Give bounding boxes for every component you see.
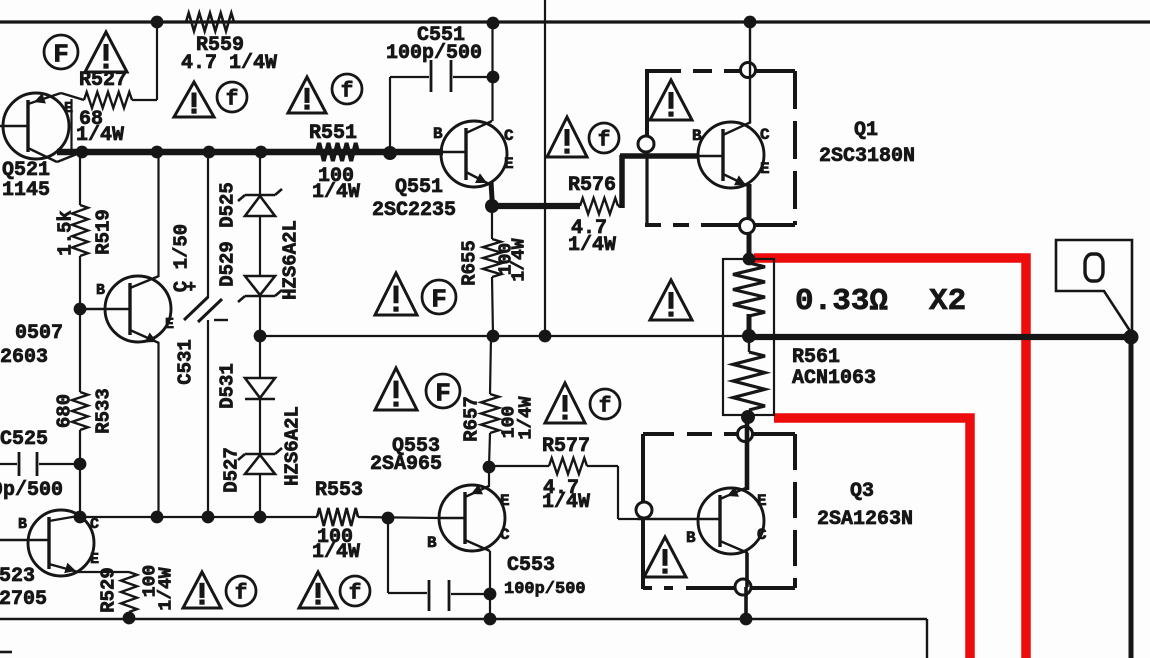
- circled F lower: [426, 374, 460, 408]
- label D527 rotated: [221, 447, 243, 493]
- svg-text:R561: R561: [792, 346, 840, 369]
- connector circle Q3 base: [636, 502, 652, 518]
- label R576: [568, 174, 616, 197]
- label Q1 E: [760, 160, 770, 178]
- circled f near R551: [332, 74, 362, 104]
- wire Q551 collector up: [491, 23, 493, 121]
- wire R561 mid bold: [747, 314, 752, 336]
- label R561 type ACN1063: [792, 367, 876, 390]
- label 0.33 X2: [795, 284, 966, 319]
- junction dot R561 bottom: [741, 410, 755, 424]
- dashed box Q1 top: [645, 69, 795, 73]
- svg-text:680: 680: [54, 394, 76, 428]
- circled f mid-top near R527: [217, 82, 247, 112]
- junction dot mid rail x545: [539, 330, 552, 343]
- junction dot C553 right: [484, 588, 497, 601]
- resistor R553: [317, 508, 358, 526]
- svg-text:1.5k: 1.5k: [55, 210, 77, 256]
- label Q507: [15, 322, 63, 345]
- svg-text:HZS6A2L: HZS6A2L: [280, 220, 302, 300]
- svg-text:C525: C525: [0, 428, 48, 451]
- svg-text:1/4W: 1/4W: [510, 238, 530, 281]
- warning triangle near R576: [547, 117, 587, 157]
- svg-text:R527: R527: [79, 69, 127, 92]
- label R529 1/4W rotated: [157, 567, 177, 610]
- circled f bottom 1: [226, 576, 256, 606]
- junction dot mid rail output: [1124, 330, 1139, 345]
- svg-text:R657: R657: [461, 396, 483, 442]
- wire R561 mid to lower: [748, 341, 750, 352]
- wire R655 bottom: [492, 277, 493, 336]
- circled F mid: [422, 280, 456, 314]
- callout letter 0: [1085, 254, 1103, 281]
- wire Q553 collector down: [489, 551, 491, 594]
- label R576 value: [568, 217, 616, 257]
- resistor R655: [483, 239, 501, 277]
- label HZS6A2L lower rotated: [282, 406, 304, 486]
- svg-text:C: C: [757, 526, 767, 544]
- red highlight line 1: [754, 258, 1026, 658]
- junction dot top rail / Q1 collector: [744, 16, 757, 29]
- wire R657 node to Q553 emitter: [488, 467, 490, 487]
- label R655 rotated: [459, 240, 481, 286]
- svg-text:f: f: [598, 130, 611, 153]
- junction dot top rail / C551-Q551 collector: [487, 17, 500, 30]
- label R529 100 rotated: [141, 565, 161, 597]
- warning triangle lower F: [375, 368, 417, 410]
- resistor R551: [317, 143, 358, 161]
- svg-text:C: C: [760, 126, 770, 144]
- capacitor C553: [429, 580, 484, 611]
- connector circle Q1 base: [638, 136, 654, 152]
- wire Q507 collector up to bus: [157, 152, 159, 277]
- label D529 rotated: [217, 241, 239, 287]
- label R577: [542, 435, 590, 458]
- svg-text:4.7 1/4W: 4.7 1/4W: [181, 52, 277, 75]
- svg-text:1/4W: 1/4W: [157, 567, 177, 610]
- wire mid rail to D531: [259, 336, 261, 377]
- label R559 value: [181, 34, 277, 75]
- label C525: [0, 428, 48, 451]
- label C551: [417, 24, 465, 47]
- warning triangle top-left: [85, 32, 127, 72]
- wire mid rail bold: [749, 334, 1131, 340]
- wire x545 column: [544, 0, 546, 336]
- transistor Q553 2SA965: [439, 485, 505, 552]
- svg-text:f: f: [226, 89, 239, 112]
- resistor R657: [481, 394, 499, 433]
- label R561: [792, 346, 840, 369]
- label R551: [309, 122, 357, 145]
- label R529 rotated: [98, 567, 120, 613]
- svg-text:R577: R577: [542, 435, 590, 458]
- svg-text:0507: 0507: [15, 322, 63, 345]
- connector circle Q1 collector: [741, 63, 756, 78]
- svg-text:R576: R576: [568, 174, 616, 197]
- wire R577 to Q3 base elbow: [587, 466, 637, 519]
- resistor R529: [121, 572, 137, 612]
- label D525 rotated: [217, 182, 239, 228]
- label R527: [79, 69, 127, 92]
- wire left column upper: [79, 152, 81, 205]
- junction dot mid rail R655: [487, 330, 500, 343]
- svg-text:2603: 2603: [0, 346, 48, 369]
- wire bottom rail: [0, 619, 927, 658]
- label Q3 E: [757, 492, 767, 510]
- label Q507 B: [96, 282, 105, 299]
- dashed box Q3 bottom: [643, 586, 795, 590]
- wire C553 branch: [388, 518, 427, 593]
- capacitor C531 polarized: [184, 297, 228, 322]
- junction dot diode column mid rail: [254, 330, 267, 343]
- warning triangle bottom 1: [183, 572, 221, 608]
- transistor Q1 2SC3180N: [698, 122, 764, 188]
- junction dot rail x157: [151, 511, 164, 524]
- svg-text:ACN1063: ACN1063: [792, 367, 876, 390]
- transistor Q551 2SC2235: [441, 121, 507, 187]
- warning triangle near R577: [545, 383, 585, 423]
- capacitor C551: [390, 60, 489, 92]
- wire base node down to R533: [79, 309, 81, 392]
- label R527 value 68 1/4W: [76, 108, 124, 147]
- wire C531 column lower: [207, 320, 209, 517]
- dashed box Q3 right: [793, 434, 797, 588]
- label Q1 C: [760, 126, 770, 144]
- wire C551 left elbow down: [389, 77, 391, 150]
- transistor Q521 2SA1145: [0, 93, 84, 162]
- label Q521: [2, 159, 50, 182]
- svg-text:+: +: [186, 279, 196, 298]
- resistor R519: [72, 205, 88, 256]
- svg-text:D529: D529: [217, 241, 239, 287]
- label R657 rotated: [461, 396, 483, 442]
- junction dot top rail / R527 branch: [151, 16, 164, 29]
- warning triangle in Q1 box: [650, 80, 692, 120]
- label Q523 type: [0, 588, 47, 611]
- wire bottom left stub: [0, 651, 12, 654]
- junction dot bottom rail Q3: [740, 613, 753, 626]
- wire Q1 emitter bold: [747, 184, 752, 259]
- label C531 plus: [186, 279, 196, 298]
- red highlight line 2: [774, 418, 970, 658]
- svg-text:1/4W: 1/4W: [312, 541, 360, 564]
- svg-text:C: C: [90, 516, 99, 533]
- wire diode column from bus: [259, 152, 261, 195]
- label C531 value rotated: [171, 224, 193, 292]
- label R519 value 1.5k: [55, 210, 77, 256]
- svg-text:f: f: [599, 396, 612, 419]
- svg-text:Q1: Q1: [854, 119, 878, 142]
- svg-text:1/4W: 1/4W: [312, 181, 360, 204]
- label C551 value: [386, 42, 482, 65]
- wire D527 to lower rail: [259, 474, 261, 517]
- junction dot bottom rail C553: [484, 613, 497, 626]
- label R533: [93, 388, 115, 434]
- svg-text:C531: C531: [175, 339, 197, 385]
- junction dot bus/C551 branch: [383, 146, 397, 160]
- label Q553 type: [370, 453, 442, 476]
- svg-text:R533: R533: [93, 388, 115, 434]
- svg-text:C: C: [500, 526, 510, 544]
- wire bold output drop: [1129, 337, 1134, 658]
- wire R576 right elbow bold: [618, 155, 699, 208]
- junction dot bus/diode column: [255, 146, 268, 159]
- label C531: [175, 339, 197, 385]
- dashed box Q3 left: [641, 434, 645, 589]
- svg-text:1/4W: 1/4W: [568, 234, 616, 257]
- svg-text:2SA965: 2SA965: [370, 453, 442, 476]
- svg-text:X2: X2: [929, 284, 966, 319]
- label HZS6A2L upper rotated: [280, 220, 302, 300]
- wire R527 right to x157 column: [132, 22, 157, 100]
- box around R561: [723, 259, 774, 415]
- junction dot rail x80: [74, 511, 87, 524]
- svg-text:B: B: [18, 516, 27, 533]
- junction dot bus/Q521 collector: [76, 146, 89, 159]
- dashed box Q3 top: [643, 432, 795, 436]
- junction dot C551 right: [487, 71, 500, 84]
- label Q551 C: [504, 127, 514, 145]
- callout flag O: [1056, 240, 1132, 334]
- label Q551 B: [433, 125, 443, 143]
- label C553 value: [504, 580, 586, 599]
- wire R519 to Q507 base node: [79, 256, 81, 309]
- zener diode D527: [238, 448, 282, 474]
- junction dot rail x260: [254, 511, 267, 524]
- connector circle Q1 emitter: [740, 219, 755, 234]
- label R657 100 rotated: [500, 406, 520, 438]
- wire Q3 emitter bold: [745, 418, 750, 490]
- label Q551 E: [504, 155, 514, 173]
- wire Q3 collector down: [746, 553, 747, 619]
- dashed box Q1 bottom: [645, 223, 795, 227]
- label Q523: [0, 565, 35, 588]
- wire R553 to Q553 base: [358, 517, 440, 518]
- label D531 rotated: [217, 363, 239, 409]
- svg-text:B: B: [692, 127, 702, 145]
- label Q3 type: [817, 508, 913, 531]
- resistor R561 lower half: [733, 352, 765, 410]
- svg-text:E: E: [165, 316, 174, 333]
- label Q1 type: [819, 145, 915, 168]
- label R553: [315, 479, 363, 502]
- svg-text:E: E: [500, 492, 510, 510]
- resistor R559: [186, 13, 234, 31]
- svg-text:f: f: [349, 583, 362, 606]
- svg-text:F: F: [435, 378, 451, 408]
- circled f near R576: [589, 123, 619, 153]
- zener diode D525: [238, 189, 282, 216]
- transistor Q3 2SA1263N: [637, 487, 764, 554]
- svg-text:E: E: [504, 155, 514, 173]
- transistor Q507 2SC2603: [80, 276, 171, 343]
- svg-text:D527: D527: [221, 447, 243, 493]
- label Q3: [850, 480, 874, 503]
- svg-text:f: f: [341, 81, 354, 104]
- label R655 100 rotated: [497, 243, 517, 275]
- warning triangle mid-top near R527: [174, 82, 214, 117]
- label R551 value: [312, 165, 360, 204]
- label Q551 type: [372, 199, 456, 222]
- wire top supply rail: [0, 20, 1150, 23]
- label Q523 B: [18, 516, 27, 533]
- label R655 1/4W rotated: [510, 238, 530, 281]
- label R657 1/4W rotated: [517, 396, 537, 439]
- wire Q507 emitter down: [157, 342, 159, 517]
- wire D531 to D527: [259, 399, 261, 453]
- resistor R533: [72, 392, 88, 430]
- wire R655 top: [491, 207, 493, 239]
- capacitor C525: [0, 452, 74, 476]
- label Q507 type 2603: [0, 346, 48, 369]
- svg-text:E: E: [757, 492, 767, 510]
- junction dot R657/R577: [483, 461, 496, 474]
- label Q553 E: [500, 492, 510, 510]
- wire C531 column upper: [207, 152, 209, 298]
- wire Q551 emitter bold: [490, 182, 580, 207]
- zener diode D529: [238, 276, 282, 302]
- connector circle Q3 emitter: [738, 427, 753, 442]
- wire R657 top: [490, 336, 491, 394]
- label Q523 C: [90, 516, 99, 533]
- warning triangle in Q3 box: [644, 537, 686, 577]
- svg-text:R519: R519: [93, 209, 115, 255]
- label Q553: [392, 435, 440, 458]
- svg-text:C553: C553: [507, 554, 555, 577]
- svg-text:1/4W: 1/4W: [542, 491, 590, 514]
- svg-text:Q551: Q551: [395, 176, 443, 199]
- label Q553 C: [500, 526, 510, 544]
- svg-text:1145: 1145: [2, 179, 50, 202]
- junction dot C525 node: [74, 458, 87, 471]
- junction dot bus/C531 column: [203, 146, 216, 159]
- junction dot R561 top: [743, 253, 756, 266]
- junction dot Q507 base: [74, 303, 87, 316]
- circled f near R577: [590, 389, 620, 419]
- svg-text:f: f: [235, 583, 248, 606]
- transistor Q523 2SC2705: [0, 510, 94, 576]
- svg-text:0.33Ω: 0.33Ω: [795, 284, 888, 319]
- wire R533 to C525 node: [79, 430, 81, 464]
- svg-text:R551: R551: [309, 122, 357, 145]
- warning triangle mid F: [375, 273, 417, 315]
- svg-text:2SC2235: 2SC2235: [372, 199, 456, 222]
- resistor R527: [84, 92, 132, 108]
- svg-text:B: B: [96, 282, 105, 299]
- svg-text:R655: R655: [459, 240, 481, 286]
- label R553 value: [312, 526, 360, 564]
- diode D531: [245, 378, 275, 399]
- wire Q521 emitter to bus: [70, 99, 72, 150]
- svg-text:Q523: Q523: [0, 565, 35, 588]
- label Q3 C: [757, 526, 767, 544]
- svg-text:1/4W: 1/4W: [517, 396, 537, 439]
- svg-text:E: E: [760, 160, 770, 178]
- svg-text:F: F: [53, 39, 69, 69]
- label R577 value: [542, 477, 590, 514]
- wire D529 to mid rail: [259, 296, 261, 336]
- junction dot bus/x157 column: [151, 146, 164, 159]
- svg-text:C: C: [504, 127, 514, 145]
- warning triangle bottom 2: [299, 572, 337, 608]
- label Q1: [854, 119, 878, 142]
- junction dot R561 mid rail: [742, 329, 756, 343]
- svg-text:E: E: [90, 551, 99, 568]
- warning triangle near R551: [288, 77, 326, 113]
- label Q3 B: [686, 529, 696, 547]
- circled F top-left: [44, 35, 78, 69]
- label Q551: [395, 176, 443, 199]
- svg-text:B: B: [686, 529, 696, 547]
- svg-text:B: B: [433, 125, 443, 143]
- svg-text:0p/500: 0p/500: [0, 479, 63, 502]
- wire R577 left: [489, 465, 549, 467]
- wire C553 node to bottom rail: [489, 594, 491, 619]
- svg-text:Q3: Q3: [850, 480, 874, 503]
- svg-text:R553: R553: [315, 479, 363, 502]
- wire C525 node down: [79, 464, 81, 517]
- resistor R561 upper half: [733, 263, 765, 316]
- label Q521 E: [64, 100, 73, 117]
- label Q521 type 1145: [2, 179, 50, 202]
- resistor R576: [580, 198, 618, 214]
- svg-text:B: B: [427, 534, 437, 552]
- junction dot Q553 base branch: [382, 512, 395, 525]
- svg-text:D525: D525: [217, 182, 239, 228]
- label Q553 B: [427, 534, 437, 552]
- svg-text:100p/500: 100p/500: [386, 42, 482, 65]
- svg-text:2SC3180N: 2SC3180N: [819, 145, 915, 168]
- dashed box Q1 right: [793, 71, 797, 225]
- junction dot rail x208: [202, 511, 215, 524]
- svg-text:1/4W: 1/4W: [76, 124, 124, 147]
- resistor R577: [549, 458, 587, 474]
- wire mid rail thin: [260, 335, 749, 337]
- svg-text:HZS6A2L: HZS6A2L: [282, 406, 304, 486]
- svg-text:2SA1263N: 2SA1263N: [817, 508, 913, 531]
- connector circle Q3 collector: [735, 579, 751, 595]
- label Q523 E: [90, 551, 99, 568]
- wire bold base bus: [57, 149, 443, 156]
- label C553: [507, 554, 555, 577]
- warning triangle above R561 label: [650, 280, 692, 320]
- dashed box Q1 left: [645, 71, 649, 225]
- junction dot R529 bottom rail: [123, 612, 136, 625]
- wire Q523 emitter to R529: [78, 571, 129, 573]
- wire Q1 collector: [749, 22, 751, 123]
- svg-text:100p/500: 100p/500: [504, 580, 586, 599]
- svg-text:F: F: [431, 284, 447, 314]
- svg-text:D531: D531: [217, 363, 239, 409]
- label C525 value: [0, 479, 63, 502]
- label R519: [93, 209, 115, 255]
- wire lower distribution rail: [80, 516, 317, 518]
- wire D525 to D529: [259, 216, 261, 275]
- wire R657 bottom: [489, 433, 490, 467]
- label R533 value 680: [54, 394, 76, 428]
- svg-text:C2705: C2705: [0, 588, 47, 611]
- svg-text:R529: R529: [98, 567, 120, 613]
- label Q507 E: [165, 316, 174, 333]
- junction dot Q551 emitter: [485, 199, 499, 213]
- label Q1 B: [692, 127, 702, 145]
- circled f bottom 2: [340, 576, 370, 606]
